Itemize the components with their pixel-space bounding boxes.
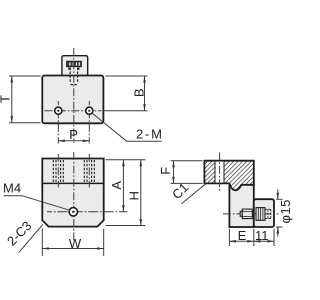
clamp screw head bbox=[256, 208, 265, 221]
dimension phi15 extension lines bbox=[276, 199, 283, 227]
leader M4 bbox=[4, 196, 70, 211]
dimension E and 11 extension lines bbox=[229, 229, 274, 246]
svg-text:A: A bbox=[109, 181, 124, 190]
leader 2-C3 bbox=[19, 224, 43, 252]
dimension A arrows bbox=[122, 160, 125, 212]
dimension P line bbox=[58, 140, 89, 142]
dimension E line bbox=[229, 240, 274, 242]
hole left bbox=[55, 107, 62, 114]
centerline of tapped hole side view bbox=[219, 153, 221, 193]
clamp screw tip bbox=[240, 211, 242, 216]
svg-text:2-M: 2-M bbox=[136, 126, 164, 141]
dimension B extension bottom (hole centerline extended) bbox=[104, 110, 148, 112]
dimension H extension bottom bbox=[106, 225, 146, 227]
dimension H line bbox=[140, 160, 142, 226]
M4 hole bbox=[69, 208, 77, 216]
centerline vertical hole right bbox=[88, 101, 90, 144]
dimension F extension lines bbox=[171, 161, 203, 184]
dimension B line bbox=[144, 76, 146, 111]
dimension F line bbox=[173, 161, 175, 184]
dimension F arrows bbox=[172, 161, 175, 184]
clamp tab (boss on top of block) bbox=[62, 56, 88, 78]
centerline tapped hole right front bbox=[88, 154, 90, 188]
svg-text:11: 11 bbox=[255, 228, 269, 243]
centerline vertical middle front view bbox=[73, 152, 75, 242]
dimension P arrows bbox=[58, 140, 89, 143]
clamp screw socket hidden bbox=[265, 209, 271, 218]
clamp screw threaded shank bbox=[242, 209, 252, 219]
dimension H arrows bbox=[140, 160, 143, 226]
screw head hidden outline in tab bbox=[67, 61, 82, 66]
dimension B arrows bbox=[143, 76, 146, 111]
dimension W line bbox=[42, 248, 103, 250]
svg-text:B: B bbox=[131, 88, 146, 97]
hole right bbox=[86, 107, 93, 114]
centerline vertical hole left bbox=[57, 101, 59, 144]
clamp screw centerline bbox=[223, 213, 279, 215]
dimension E and 11 arrows bbox=[229, 240, 274, 243]
svg-text:M4: M4 bbox=[3, 181, 21, 196]
screw head slits bbox=[70, 62, 79, 65]
top view body bbox=[42, 76, 103, 124]
svg-text:φ15: φ15 bbox=[278, 199, 293, 223]
dimension B extension top bbox=[106, 75, 148, 77]
svg-text:P: P bbox=[69, 127, 78, 142]
svg-text:F: F bbox=[158, 167, 173, 175]
section bar (hatched) with relief groove bbox=[204, 161, 253, 191]
tapped hole band in section bbox=[215, 162, 224, 183]
tapped hole hidden lines right bbox=[84, 160, 94, 183]
svg-text:H: H bbox=[126, 191, 141, 200]
dimension T extension lines bbox=[9, 76, 41, 123]
centerline horizontal through holes bbox=[45, 110, 102, 112]
dimension W extension lines bbox=[42, 229, 103, 256]
knob (round boss phi15) bbox=[254, 199, 274, 227]
svg-text:E: E bbox=[238, 228, 247, 243]
front view body with chamfered bottom corners bbox=[42, 159, 103, 227]
tapped hole hidden lines left bbox=[53, 160, 63, 183]
step joint line bbox=[42, 182, 103, 184]
centerline vertical middle top view bbox=[73, 48, 75, 143]
clamp screw head knurl bbox=[258, 208, 263, 221]
screw shank hidden lines bbox=[69, 67, 79, 84]
leg of side view bbox=[229, 183, 253, 227]
centerline horizontal through M4 hole bbox=[47, 211, 128, 213]
dimension phi15 line segments with outside arrows bbox=[277, 190, 279, 237]
leader C1 bbox=[182, 184, 207, 204]
dimension T line bbox=[11, 76, 13, 123]
dimension A line bbox=[122, 160, 124, 212]
dimension A extension top bbox=[106, 159, 146, 161]
svg-text:W: W bbox=[69, 236, 82, 251]
leader 2-M bbox=[91, 113, 161, 142]
centerline tapped hole left front bbox=[57, 154, 59, 188]
dimension T arrows bbox=[11, 76, 14, 123]
dimension W arrows bbox=[42, 247, 103, 250]
svg-text:T: T bbox=[0, 95, 13, 103]
